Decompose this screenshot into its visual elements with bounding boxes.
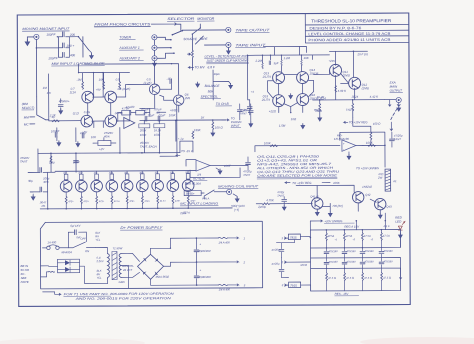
svg-text:10Ω: 10Ω bbox=[291, 117, 297, 121]
svg-text:PIN A: PIN A bbox=[202, 197, 209, 201]
transistor Q39 bbox=[182, 180, 194, 192]
svg-text:TO -15 V: TO -15 V bbox=[181, 149, 194, 153]
svg-text:100K: 100K bbox=[169, 113, 177, 117]
svg-text:30M: 30M bbox=[78, 173, 82, 175]
transistor Q41 bbox=[311, 198, 322, 209]
jack J1 MM input bbox=[34, 34, 39, 39]
ground under 750 ohm bbox=[318, 116, 322, 121]
ground Q41 bbox=[315, 210, 319, 215]
squiggle line AC bbox=[49, 270, 55, 273]
svg-text:[+4]: [+4] bbox=[233, 208, 239, 212]
svg-text:40%: 40% bbox=[43, 180, 49, 184]
svg-text:LED: LED bbox=[395, 220, 402, 224]
svg-text:4P5A: 4P5A bbox=[346, 234, 353, 238]
capacitor series left bbox=[37, 153, 39, 172]
left column phono bbox=[49, 74, 81, 121]
cap row1 col4 470/16V bbox=[379, 252, 384, 254]
diode D1 bbox=[65, 260, 70, 265]
svg-text:OUTPUT: OUTPUT bbox=[390, 89, 404, 93]
wire 7.5K to 100 ohm leg bbox=[353, 117, 371, 132]
wire mid terminal bbox=[197, 261, 239, 263]
capacitor 470/6V bbox=[58, 105, 63, 107]
ladder column 1 resistor 4P5A bbox=[325, 233, 327, 241]
svg-text:SELECT): SELECT) bbox=[22, 106, 35, 110]
ground MM loading bbox=[88, 50, 91, 55]
svg-text:100K: 100K bbox=[264, 141, 272, 145]
transistor Q8 bbox=[105, 115, 117, 127]
svg-text:150K: 150K bbox=[194, 128, 202, 132]
resistor box 2 bbox=[136, 110, 145, 115]
wire tape input to line stage bbox=[263, 46, 306, 55]
svg-text:47.5A: 47.5A bbox=[383, 234, 390, 238]
ground below second stage bbox=[301, 124, 305, 129]
svg-text:BU: BU bbox=[97, 272, 101, 276]
svg-text:SPECTROL: SPECTROL bbox=[201, 95, 218, 99]
svg-text:100 Ω: 100 Ω bbox=[215, 125, 224, 129]
svg-text:2.2KV: 2.2KV bbox=[96, 259, 104, 263]
svg-text:TO +15V REG: TO +15V REG bbox=[292, 181, 312, 185]
emitter resistor 473 7 bbox=[157, 196, 159, 204]
svg-text:470/16V: 470/16V bbox=[328, 250, 338, 253]
svg-text:THRESHOLD SL-10 PREAMPLIFIER: THRESHOLD SL-10 PREAMPLIFIER bbox=[311, 18, 391, 23]
triangle buffer bbox=[124, 117, 135, 128]
resistor 100 ohm reg leg bbox=[370, 132, 372, 140]
svg-text:470/16V: 470/16V bbox=[364, 250, 374, 253]
svg-text:100K: 100K bbox=[333, 181, 340, 185]
wires second stage coupling bbox=[268, 66, 314, 113]
svg-text:100 Ω: 100 Ω bbox=[373, 122, 381, 126]
svg-text:111A: 111A bbox=[70, 90, 76, 94]
svg-text:+4: +4 bbox=[251, 90, 255, 94]
wires cascode bbox=[313, 51, 367, 99]
inductor coil hatched bbox=[385, 169, 391, 191]
bottom resistor col4 47.5 bbox=[381, 273, 383, 281]
transistor Q7 bbox=[81, 115, 93, 127]
svg-text:µ0+: µ0+ bbox=[243, 108, 248, 112]
svg-text:.1M: .1M bbox=[77, 78, 82, 82]
svg-text:REG A 15V: REG A 15V bbox=[344, 225, 360, 229]
svg-text:3µF: 3µF bbox=[274, 61, 279, 65]
svg-text:A1: A1 bbox=[392, 179, 397, 183]
svg-text:TANT: TANT bbox=[20, 159, 28, 163]
svg-text:.22µF: .22µF bbox=[147, 113, 155, 117]
fuse output 3 squiggle bbox=[219, 284, 228, 285]
transistor Q42 bbox=[352, 192, 363, 203]
cap row2 col1 470/16V bbox=[324, 262, 329, 264]
svg-text:0.1 (2.2K): 0.1 (2.2K) bbox=[118, 87, 131, 91]
wire col2 bbox=[80, 171, 82, 208]
transistor Q33 bbox=[91, 180, 103, 192]
svg-text:JE24: JE24 bbox=[352, 95, 359, 99]
svg-text:2SJ74: 2SJ74 bbox=[261, 98, 271, 102]
ground main output bbox=[397, 103, 400, 106]
mid rail bbox=[38, 120, 180, 153]
svg-text:TUNER: TUNER bbox=[119, 35, 131, 39]
svg-text:1%: 1% bbox=[41, 204, 46, 208]
svg-text:BLK: BLK bbox=[97, 269, 102, 273]
transistor Q36 bbox=[136, 180, 148, 192]
svg-text:MDA-3502: MDA-3502 bbox=[156, 275, 170, 279]
resistor box 30/50 bbox=[184, 191, 201, 196]
ground left of balance bbox=[196, 82, 200, 87]
power supply box bbox=[40, 221, 262, 289]
capacitor 47/2u bbox=[282, 200, 287, 202]
wire +20V unreg arrow bbox=[310, 220, 322, 222]
svg-text:0.5: 0.5 bbox=[116, 77, 120, 81]
svg-text:BLK: BLK bbox=[95, 231, 100, 235]
wires feedback row bbox=[118, 108, 166, 121]
wire col1 bbox=[65, 171, 67, 208]
capacitor 47/20K in1 bbox=[279, 250, 284, 252]
svg-text:1.5M: 1.5M bbox=[279, 124, 286, 128]
title block box lines bbox=[305, 13, 408, 43]
svg-text:MC INPUT LOADING: MC INPUT LOADING bbox=[180, 201, 219, 205]
svg-text:D+ POWER SUPPLY: D+ POWER SUPPLY bbox=[120, 226, 163, 230]
svg-text:LEVEL CONTROL CHANGE 11-3-79 A: LEVEL CONTROL CHANGE 11-3-79 ACB bbox=[308, 32, 391, 36]
capacitor 47/20V TANT left of stage bbox=[247, 107, 252, 109]
emitter resistor 473 5 bbox=[126, 196, 128, 204]
svg-text:4.42 K: 4.42 K bbox=[370, 95, 379, 99]
ground under Q7 bbox=[57, 141, 61, 146]
jack aux1 bbox=[152, 45, 157, 50]
svg-text:FROM PHONO CIRCUITS: FROM PHONO CIRCUITS bbox=[94, 22, 151, 26]
svg-text:28 VCT: 28 VCT bbox=[122, 268, 132, 272]
svg-text:TANT: TANT bbox=[394, 137, 401, 141]
svg-text:TO +20V UNREG: TO +20V UNREG bbox=[356, 166, 380, 170]
ground right of balance bbox=[229, 83, 233, 88]
wire Q6 down bbox=[160, 105, 177, 156]
svg-text:47.5 Ω: 47.5 Ω bbox=[346, 276, 354, 280]
svg-text:1/4 A 400: 1/4 A 400 bbox=[219, 287, 231, 291]
bridge diode marks bbox=[143, 258, 158, 275]
svg-text:SELECTOR: SELECTOR bbox=[167, 17, 195, 21]
svg-text:30µ: 30µ bbox=[28, 179, 33, 183]
svg-text:2SJ74: 2SJ74 bbox=[262, 75, 272, 79]
frame border bbox=[17, 13, 410, 306]
svg-text:47/20µ: 47/20µ bbox=[272, 262, 281, 266]
diode D2 bbox=[65, 267, 70, 272]
top rail second stage bbox=[247, 55, 329, 63]
transistor Q11 cascode bbox=[330, 64, 342, 76]
jack tuner bbox=[152, 35, 157, 40]
jack tape input bbox=[226, 42, 231, 47]
svg-text:41.5+: 41.5+ bbox=[160, 200, 167, 203]
svg-text:473+: 473+ bbox=[129, 200, 135, 203]
potentiometer level bbox=[192, 50, 194, 58]
ground 100ohm bbox=[211, 131, 215, 136]
svg-text:MM: MM bbox=[24, 115, 30, 119]
svg-text:473+: 473+ bbox=[83, 200, 89, 203]
transistor Q35 bbox=[121, 180, 133, 192]
svg-text:NOTE: NOTE bbox=[21, 280, 29, 284]
svg-text:GRN: GRN bbox=[119, 280, 125, 284]
ground under Q8 bbox=[76, 142, 80, 147]
svg-text:Q41+1: Q41+1 bbox=[310, 194, 319, 198]
svg-text:47.5A: 47.5A bbox=[364, 234, 371, 238]
svg-text:100 +: 100 + bbox=[66, 44, 74, 48]
svg-text:47.5 Ω: 47.5 Ω bbox=[364, 276, 372, 280]
arrow below output switch bbox=[390, 122, 393, 131]
svg-text:2: 2 bbox=[281, 260, 284, 264]
svg-text:RC-4126: RC-4126 bbox=[193, 177, 205, 181]
svg-text:1W: 1W bbox=[47, 91, 52, 95]
transistor Q13 bbox=[273, 72, 285, 84]
svg-text:TANT: TANT bbox=[277, 194, 284, 198]
svg-text:.25: .25 bbox=[143, 111, 148, 115]
pink smudge bottom left bbox=[0, 338, 145, 344]
svg-text:2SK38: 2SK38 bbox=[309, 71, 319, 75]
wire col7 bbox=[157, 171, 159, 208]
capacitor 4500/40V no2 bbox=[194, 276, 199, 278]
note FOR T1 bbox=[43, 292, 61, 296]
svg-text:100F: 100F bbox=[224, 164, 231, 168]
svg-text:YEL: YEL bbox=[97, 276, 102, 280]
LED D5 bbox=[398, 222, 405, 231]
capacitor 100 mid bbox=[63, 43, 65, 48]
svg-text:Q42: Q42 bbox=[365, 193, 371, 197]
svg-text:470/16V: 470/16V bbox=[383, 250, 393, 253]
bottom resistor col3 47.5 bbox=[362, 273, 364, 281]
phono collector rail bbox=[79, 64, 130, 91]
cap row2 col3 470/16V bbox=[360, 262, 365, 264]
svg-text:6.8 F: 6.8 F bbox=[208, 65, 216, 69]
ground left caps bbox=[30, 192, 33, 196]
switch dashes output mute bbox=[391, 109, 398, 120]
svg-text:TO CH.B: TO CH.B bbox=[216, 102, 230, 106]
resistor box 16.2K bbox=[154, 124, 165, 128]
capacitor 2.2u mid bbox=[248, 111, 253, 113]
svg-text:TAPE INPUT: TAPE INPUT bbox=[235, 43, 266, 47]
svg-text:30M: 30M bbox=[109, 173, 113, 175]
wire col5 bbox=[126, 171, 128, 208]
svg-text:TO MV: TO MV bbox=[195, 65, 206, 69]
ladder column 3 resistor 47.5A bbox=[361, 233, 363, 241]
bias resistor box 9 bbox=[186, 174, 190, 180]
wire left vertical second stage bbox=[247, 55, 249, 100]
svg-text:TANT. EACH: TANT. EACH bbox=[140, 145, 158, 149]
capacitor 47/20V tant right of opamp bbox=[246, 163, 251, 165]
ground mid pair bbox=[289, 94, 293, 99]
svg-text:T1 50W: T1 50W bbox=[112, 246, 122, 250]
ground at MM jack bbox=[27, 37, 33, 41]
svg-text:1A 400: 1A 400 bbox=[47, 240, 56, 244]
top supply rail phono bbox=[85, 64, 179, 95]
trimpot box bbox=[98, 141, 111, 146]
svg-text:PHONO ADDED 4/21/80 11 UNITS A: PHONO ADDED 4/21/80 11 UNITS ACB bbox=[308, 38, 391, 42]
svg-text:JUST UNDER CLIP MATCHING: JUST UNDER CLIP MATCHING bbox=[206, 59, 249, 63]
svg-text:DESIGN BY N.P. 8-6-76: DESIGN BY N.P. 8-6-76 bbox=[309, 26, 361, 30]
output rail y100 bbox=[313, 99, 385, 101]
transistor Q32 bbox=[75, 180, 87, 192]
svg-text:AUXILIARY 2: AUXILIARY 2 bbox=[118, 56, 139, 60]
switch MM/MC select bbox=[30, 97, 46, 124]
wires 7815 bbox=[287, 237, 310, 243]
emitter resistor 473 2 bbox=[80, 196, 82, 204]
svg-text:TANT: TANT bbox=[243, 173, 250, 177]
emitter resistor 473 9 bbox=[187, 196, 189, 204]
pink smudge bottom right bbox=[360, 337, 474, 344]
capacitor 4500/40V no1 bbox=[194, 250, 199, 252]
svg-text:2W: 2W bbox=[377, 176, 383, 180]
switch MC select bbox=[201, 190, 226, 199]
bottom resistor col1 47.5 bbox=[326, 273, 328, 281]
wire phono input rail bbox=[46, 119, 49, 121]
secondary wires to bridge bbox=[121, 253, 140, 288]
svg-text:(2N5): (2N5) bbox=[362, 86, 369, 90]
svg-text:-: - bbox=[343, 147, 344, 151]
feedback 100K opamp2 bbox=[340, 132, 385, 145]
svg-text:4P5A: 4P5A bbox=[328, 234, 335, 238]
eq wire y120 bbox=[140, 119, 176, 121]
jack MC input bbox=[227, 189, 232, 194]
svg-text:+.1µ: +.1µ bbox=[178, 137, 184, 141]
svg-text:22/A 45.30A: 22/A 45.30A bbox=[184, 182, 201, 186]
svg-text:Q43: Q43 bbox=[386, 205, 392, 209]
svg-text:RES - 15V: RES - 15V bbox=[335, 292, 350, 296]
ground cap mid bbox=[249, 122, 253, 127]
svg-text:30M: 30M bbox=[139, 172, 143, 174]
capacitor eq 2 bbox=[158, 116, 160, 121]
bias resistor box 3 bbox=[95, 174, 99, 180]
svg-text:+22Ω: +22Ω bbox=[269, 109, 277, 113]
arrow feed output switch bbox=[388, 100, 390, 107]
svg-text:.15: .15 bbox=[156, 111, 160, 115]
svg-text:1.2M: 1.2M bbox=[283, 56, 290, 60]
jack main output bbox=[396, 97, 401, 102]
svg-text:473+: 473+ bbox=[68, 200, 74, 203]
top bus transistor row bbox=[55, 170, 196, 173]
regulator 7815 box bbox=[288, 234, 300, 240]
svg-text:30/50+: 30/50+ bbox=[186, 192, 195, 196]
svg-text:MOVING COIL INPUT: MOVING COIL INPUT bbox=[218, 184, 259, 188]
emitter resistor 473 3 bbox=[96, 196, 98, 204]
svg-text:4500/40V: 4500/40V bbox=[198, 249, 211, 253]
svg-text:4.5 F: 4.5 F bbox=[383, 224, 390, 228]
svg-text:22/A: 22/A bbox=[179, 211, 186, 215]
svg-text:7915: 7915 bbox=[290, 284, 297, 288]
svg-text:47.5 Ω: 47.5 Ω bbox=[383, 276, 391, 280]
svg-text:0µ/ 1KV: 0µ/ 1KV bbox=[70, 224, 81, 228]
transistor Q16 bbox=[297, 94, 309, 106]
wire mid feed bbox=[176, 119, 226, 121]
svg-text:7815: 7815 bbox=[290, 236, 297, 240]
svg-text:1N5242: 1N5242 bbox=[362, 185, 372, 189]
capacitor series 1 bbox=[40, 168, 42, 173]
ground 470/6V bbox=[59, 109, 63, 114]
svg-text:BU: BU bbox=[95, 234, 99, 238]
main rails regulator board bbox=[310, 230, 400, 291]
svg-text:16.2K: 16.2K bbox=[317, 95, 326, 99]
diode box feed wires bbox=[49, 266, 85, 271]
wire col3 bbox=[96, 171, 98, 208]
balance pot wire bbox=[213, 70, 231, 100]
transistor Q5 bbox=[149, 84, 159, 94]
cap row2 col2 470/16V bbox=[342, 262, 347, 264]
bias resistor box 2 bbox=[79, 174, 83, 180]
svg-text:(2.2): (2.2) bbox=[73, 111, 79, 115]
ladder column 4 resistor 47.5A bbox=[380, 233, 382, 241]
wire MM jack to loading network bbox=[36, 37, 83, 97]
svg-text:OFF: OFF bbox=[80, 237, 86, 241]
svg-text:2.2K: 2.2K bbox=[49, 113, 57, 117]
cap row1 col2 470/16V bbox=[342, 252, 347, 254]
svg-text:100K: 100K bbox=[140, 133, 147, 137]
svg-text:470/16V: 470/16V bbox=[346, 250, 356, 253]
wires phono interstage bbox=[88, 84, 179, 127]
svg-text:47/20µ: 47/20µ bbox=[271, 248, 280, 252]
svg-text:10µF: 10µF bbox=[214, 72, 221, 76]
resistor 100 ohm bbox=[212, 122, 214, 130]
svg-text:4.70K: 4.70K bbox=[266, 198, 275, 202]
emitter resistor 473 6 bbox=[141, 196, 143, 204]
wire col6 bbox=[141, 171, 143, 208]
svg-text:2µ60µ: 2µ60µ bbox=[257, 205, 266, 209]
svg-text:MA4004: MA4004 bbox=[61, 250, 72, 254]
svg-text:200K: 200K bbox=[139, 128, 147, 132]
transistor Q14 bbox=[297, 72, 309, 84]
bottom resistor col2 47.5 bbox=[344, 273, 346, 281]
transistor Q38 bbox=[167, 180, 179, 192]
bias resistor box 5 bbox=[125, 174, 129, 180]
svg-text:20 F (V): 20 F (V) bbox=[356, 52, 368, 56]
transistor Q15 bbox=[273, 95, 285, 107]
ladder column 2 resistor 4P5A bbox=[343, 233, 345, 241]
svg-text:TO +15V REG: TO +15V REG bbox=[349, 120, 368, 124]
right edge arrow down bbox=[399, 234, 402, 279]
svg-text:2N5: 2N5 bbox=[184, 96, 191, 100]
transistor Q6 bbox=[173, 95, 183, 105]
wire selector to level pot bbox=[187, 34, 192, 70]
bias resistor box 4 bbox=[110, 174, 114, 180]
svg-text:+24V: +24V bbox=[328, 59, 336, 63]
switch MM loading select bbox=[78, 36, 80, 38]
ground 47/2u bbox=[282, 205, 286, 210]
transistor Q34 bbox=[106, 180, 118, 192]
svg-text:40%: 40% bbox=[104, 135, 110, 139]
svg-text:1M: 1M bbox=[43, 86, 48, 90]
label TO +15V REG arrow mid bbox=[285, 182, 290, 184]
svg-text:4500/40V: 4500/40V bbox=[199, 275, 212, 279]
svg-text:+: + bbox=[343, 142, 345, 146]
svg-text:YEL: YEL bbox=[95, 238, 100, 242]
svg-text:700 [6V]: 700 [6V] bbox=[332, 204, 343, 208]
ground Q43 bbox=[378, 213, 382, 218]
cap row2 col4 470/16V bbox=[379, 262, 384, 264]
svg-text:0.1%: 0.1% bbox=[84, 110, 91, 114]
wires around opamp1 bbox=[176, 120, 248, 178]
T1 secondary coil bbox=[119, 253, 121, 277]
svg-text:4.99 K: 4.99 K bbox=[338, 89, 347, 93]
svg-text:SOURCE: SOURCE bbox=[183, 37, 198, 41]
svg-text:100PF: 100PF bbox=[46, 33, 56, 37]
transistor Q37 bbox=[152, 180, 164, 192]
emitter resistor 473 1 bbox=[65, 196, 67, 204]
bias resistor box 8 bbox=[171, 174, 175, 180]
bottom bus transistor row bbox=[40, 207, 232, 210]
bridge rectifier MDA-3502 bbox=[137, 254, 163, 279]
capacitor series 2 bbox=[40, 187, 42, 192]
capacitor 100F mid rail bbox=[74, 161, 79, 163]
bridge output wires bbox=[150, 238, 196, 285]
capacitor eq 1 bbox=[145, 116, 147, 121]
resistor box 200K bbox=[139, 124, 150, 128]
svg-text:400: 400 bbox=[70, 53, 75, 57]
arrow TO PHONO INPUT bbox=[222, 119, 229, 121]
ground Q42 zener bbox=[328, 211, 332, 216]
bias resistor box 7 bbox=[156, 174, 160, 180]
svg-text:470/16V: 470/16V bbox=[365, 260, 375, 263]
transistor Q12 bbox=[349, 77, 361, 89]
